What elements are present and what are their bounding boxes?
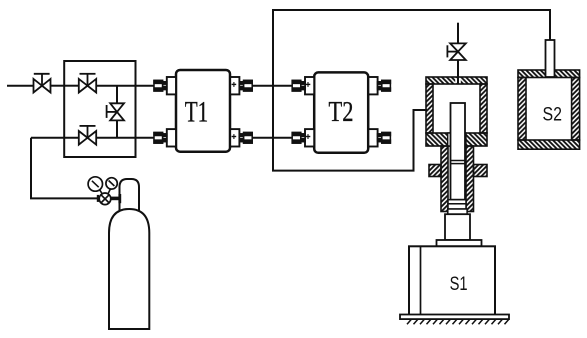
wire: vent pipe lower [457,60,459,84]
packing rings [448,200,466,204]
wire T1-T2 upper [252,85,292,87]
furnace inner wall line [420,246,422,315]
svg-text:S2: S2 [543,104,563,125]
regulator outlet connector [111,197,120,201]
reaction cell: vent pipe gap in top wall [455,78,461,83]
fitting T1 top-left [154,77,176,94]
fitting T1 top-right [230,77,252,94]
reaction cell: top wall [426,77,487,84]
regulator gauge 2 [106,178,117,194]
reaction cell: left wall [426,84,433,133]
valve V5 (vent valve, vertical) [447,43,465,60]
vessel S2: left wall [518,78,526,141]
svg-text:S1: S1 [450,273,468,295]
reaction cell: right wall [480,84,487,133]
mounting plate [437,240,482,246]
fitting T2 bottom-right [368,129,390,146]
furnace S1 box [409,246,495,315]
valve V3 (lower manifold valve) [79,126,96,145]
fitting T2 top-right [368,77,390,94]
wire: bypass branch vertical [116,86,118,104]
regulator gauge 1 [88,177,102,195]
vessel S2: top wall [518,70,580,78]
regulator inlet tick [97,195,99,202]
wire: gas inlet pipe [7,85,34,87]
wire: lower line through box [31,137,79,139]
S2 probe rod [546,40,555,77]
valve V4 (bypass valve, vertical) [107,103,124,120]
fitting T2 top-left [292,77,314,94]
fitting T1 bottom-right [230,129,252,146]
column left wall [441,146,448,212]
fitting T1 bottom-left [154,129,176,146]
flange arm left [429,165,441,177]
gas cylinder body [109,209,149,329]
gas cylinder neck dome [120,179,140,218]
regulator valve body (circled X) [99,193,111,205]
reaction cell: bore gap in bottom wall [448,133,466,146]
wire: upper line through box [64,85,79,87]
valve manifold box [64,61,135,157]
base plate [400,315,509,320]
valve V2 (upper manifold valve) [79,74,96,93]
vessel S2: bottom wall [518,140,580,149]
ground hatching [407,319,509,324]
reaction cell: bottom wall [426,133,487,146]
wire: line to regulator [31,138,97,199]
column right wall [466,146,474,212]
wire [51,85,65,87]
vessel S2: right wall [572,78,580,141]
chamber T2 body [314,72,368,152]
valve V1 (inlet shut-off) [34,74,51,93]
flange arm right [474,165,488,177]
wire: vacuum loop (top, left, bottom, riser to cell) [273,10,550,171]
piston rod [451,103,466,200]
chamber T1 body [176,70,230,152]
wire: vent pipe upper [457,23,459,44]
svg-text:T1: T1 [185,95,209,128]
fitting T2 bottom-left [292,129,314,146]
wire T1-T2 lower [252,137,292,139]
coupling block [445,214,470,240]
svg-text:T2: T2 [329,96,354,128]
rod collar lines [451,160,466,162]
